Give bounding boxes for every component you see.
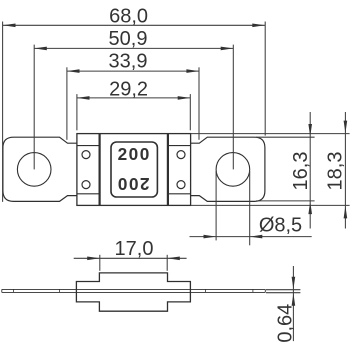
dimension 16,3 top extension line bbox=[256, 136, 315, 138]
side view: strip tick at tab corner left bbox=[13, 289, 15, 292]
dimension 16,3 bottom extension line bbox=[256, 200, 315, 202]
arrowhead Ø8,5 right (outside, points left) bbox=[250, 235, 263, 239]
arrowhead 68,0 left bbox=[3, 24, 16, 28]
dimension Ø8,5 left extension line bbox=[215, 171, 217, 240]
front view: left cap upper rivet hole bbox=[82, 151, 90, 159]
front view: left mounting hole Ø8,5 bbox=[17, 153, 51, 187]
arrowhead 18,3 top (points down) bbox=[344, 121, 348, 134]
dimension 0,64 top extension line bbox=[266, 289, 300, 291]
dimension 17,0 line bbox=[74, 257, 187, 259]
svg-text:33,9: 33,9 bbox=[109, 51, 148, 73]
dimension 0,64 bottom extension line bbox=[266, 292, 300, 294]
arrowhead 17,0 right (outside, points left) bbox=[167, 257, 180, 261]
side view: strip tick at ramp start left bbox=[59, 289, 61, 292]
svg-text:18,3: 18,3 bbox=[324, 152, 346, 191]
front view: fuse body rectangle 29,2 x 18,3 bbox=[77, 134, 191, 206]
side view: metal strip bottom edge bbox=[2, 291, 266, 293]
dimension 33,9 left extension line bbox=[66, 67, 68, 140]
svg-text:0,64: 0,64 bbox=[275, 304, 297, 343]
dimension 33,9 line bbox=[67, 70, 199, 72]
front view: right end-cap divider bbox=[167, 134, 169, 206]
side view: strip tick at tab corner right bbox=[252, 289, 254, 292]
front view: left end-cap lower rib line bbox=[77, 193, 100, 195]
dimension 18,3 bottom extension line bbox=[191, 204, 350, 206]
dimension 50,9 right extension / hole centerline bbox=[232, 45, 234, 170]
side view group bbox=[2, 273, 266, 311]
dimension 50,9 line bbox=[34, 47, 233, 49]
arrowhead Ø8,5 left (outside, points right) bbox=[204, 235, 217, 239]
dimension 16,3 line bbox=[309, 112, 311, 229]
arrowhead 33,9 left bbox=[67, 69, 80, 73]
svg-text:200: 200 bbox=[116, 174, 149, 194]
svg-text:29,2: 29,2 bbox=[109, 79, 148, 101]
arrowhead 29,2 right bbox=[178, 96, 191, 100]
dimension 17,0 right extension line bbox=[166, 255, 168, 271]
arrowhead 0,64 top (points down) bbox=[292, 277, 296, 290]
dimension 18,3 line bbox=[344, 112, 346, 229]
dimension 50,9 left extension / hole centerline bbox=[33, 45, 35, 170]
front view: right cap lower rivet hole bbox=[177, 181, 185, 189]
front view: rating label plate bbox=[111, 142, 157, 197]
front view: left end-cap divider bbox=[98, 134, 100, 206]
arrowhead 33,9 right bbox=[186, 69, 199, 73]
front view: right cap upper rivet hole bbox=[177, 151, 185, 159]
svg-text:17,0: 17,0 bbox=[115, 238, 154, 260]
dimension 68,0 left extension line bbox=[2, 22, 4, 202]
arrowhead 16,3 bottom (points up) bbox=[308, 202, 312, 215]
svg-text:68,0: 68,0 bbox=[109, 5, 148, 27]
arrowhead 16,3 top (points down) bbox=[308, 124, 312, 137]
side view: metal strip top edge bbox=[2, 288, 266, 290]
arrowhead 18,3 bottom (points up) bbox=[344, 206, 348, 219]
front view: left mounting tab outline bbox=[3, 137, 77, 201]
dimension 29,2 line bbox=[77, 97, 190, 99]
front view: right end-cap lower rib line bbox=[168, 193, 191, 195]
svg-text:200: 200 bbox=[118, 144, 151, 164]
arrowhead 50,9 left bbox=[34, 47, 47, 51]
side view: fuse body stepped outline bbox=[76, 273, 190, 311]
dimension 68,0 line bbox=[3, 24, 265, 26]
front view: right mounting tab outline bbox=[191, 137, 265, 201]
svg-text:50,9: 50,9 bbox=[109, 28, 148, 50]
front view: right mounting hole Ø8,5 bbox=[216, 153, 250, 187]
dimension 29,2 left extension line bbox=[76, 94, 78, 130]
arrowhead 0,64 bottom (points up) bbox=[292, 293, 296, 306]
front view: left cap lower rivet hole bbox=[82, 181, 90, 189]
dimension 29,2 right extension line bbox=[189, 94, 191, 130]
front view: left end-cap upper rib line bbox=[77, 145, 100, 147]
dimension 68,0 right extension line bbox=[264, 22, 266, 136]
svg-text:16,3: 16,3 bbox=[290, 152, 312, 191]
side view: strip tick at ramp end right bbox=[204, 289, 206, 292]
dimension 17,0 left extension line bbox=[99, 255, 101, 271]
arrowhead 29,2 left bbox=[77, 96, 90, 100]
arrowhead 68,0 right bbox=[252, 24, 265, 28]
dimension 0,64 line bbox=[292, 266, 294, 341]
dimension Ø8,5 right extension line bbox=[249, 171, 251, 245]
arrowhead 50,9 right bbox=[221, 47, 234, 51]
side view: strip right end cap bbox=[264, 289, 266, 292]
dimension Ø8,5 line bbox=[190, 236, 312, 238]
front view: right end-cap upper rib line bbox=[168, 145, 191, 147]
dimension 33,9 right extension line bbox=[198, 67, 200, 140]
svg-text:Ø8,5: Ø8,5 bbox=[259, 215, 302, 237]
side view: strip left end cap bbox=[1, 289, 3, 292]
arrowhead 17,0 left (outside, points right) bbox=[87, 257, 100, 261]
dimension 18,3 top extension line bbox=[191, 133, 350, 135]
